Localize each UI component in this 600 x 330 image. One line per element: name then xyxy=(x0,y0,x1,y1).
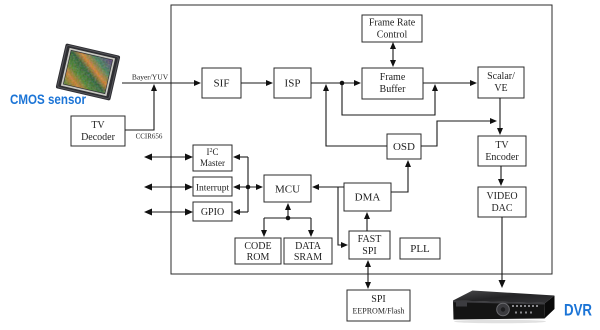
arrowhead down into DVR xyxy=(499,280,506,288)
svg-text:Encoder: Encoder xyxy=(485,152,519,163)
svg-text:TV: TV xyxy=(91,120,105,131)
svg-text:CMOS sensor: CMOS sensor xyxy=(10,91,86,107)
svg-text:Master: Master xyxy=(200,158,225,168)
wire Interrupt external xyxy=(148,186,189,188)
svg-text:CODE: CODE xyxy=(244,241,271,252)
wire frame-buffer bypass xyxy=(342,83,435,115)
arrowhead OSD branch up xyxy=(323,84,329,91)
svg-text:SPI: SPI xyxy=(362,246,376,257)
arrowhead bypass up xyxy=(432,84,438,91)
svg-text:OSD: OSD xyxy=(393,141,415,153)
svg-text:DMA: DMA xyxy=(355,192,381,204)
wire Scalar/VE to TV Encoder xyxy=(499,98,501,131)
svg-text:SPI: SPI xyxy=(371,294,385,305)
junction dot ISP bus xyxy=(340,81,345,86)
wire FAST SPI to SPI EEPROM xyxy=(367,263,369,286)
arrowhead into SIF xyxy=(194,80,201,86)
block I2C Master xyxy=(193,145,232,171)
arrowhead up into Frame Rate Control xyxy=(390,42,396,49)
block GPIO xyxy=(193,202,232,221)
svg-text:VE: VE xyxy=(494,83,507,94)
block SIF xyxy=(202,68,241,98)
block TV Decoder xyxy=(71,116,125,146)
arrowhead DMA line up into OSD xyxy=(405,160,411,167)
svg-text:DAC: DAC xyxy=(491,203,512,214)
arrowhead up into FAST SPI bottom xyxy=(365,260,371,267)
wire VIDEO DAC to DVR xyxy=(501,217,503,283)
wire FAST SPI to DMA xyxy=(366,216,368,231)
block SPI EEPROM/Flash xyxy=(347,290,410,321)
svg-text:Control: Control xyxy=(377,30,408,41)
svg-text:Bayer/YUV: Bayer/YUV xyxy=(132,73,169,82)
arrowhead connector into I2C Master right xyxy=(233,154,240,160)
block MCU xyxy=(264,175,311,202)
chip boundary frame xyxy=(171,5,552,274)
arrowhead into MCU left xyxy=(256,184,263,190)
wire TV Encoder to VIDEO DAC xyxy=(500,166,502,182)
svg-text:SIF: SIF xyxy=(214,78,230,90)
junction dot interrupt line xyxy=(246,185,251,190)
block Interrupt xyxy=(193,177,232,196)
wire Frame Rate Control to Frame Buffer xyxy=(392,46,394,63)
arrowhead down into VIDEO DAC xyxy=(498,179,504,186)
svg-text:VIDEO: VIDEO xyxy=(486,191,517,202)
wire sensor to SIF xyxy=(122,82,197,84)
wire DMA branch to FAST SPI xyxy=(338,187,344,245)
arrowhead down into TV Encoder xyxy=(497,128,503,135)
wire GPIO external xyxy=(148,211,189,213)
block VIDEO DAC xyxy=(478,187,526,217)
wire DMA to OSD xyxy=(391,164,408,192)
svg-text:ISP: ISP xyxy=(285,78,301,90)
wire MCU to memory junction xyxy=(287,207,289,218)
svg-text:Scalar/: Scalar/ xyxy=(487,71,515,82)
arrowhead connector into GPIO right xyxy=(233,209,240,215)
svg-text:Interrupt: Interrupt xyxy=(196,184,230,194)
svg-text:Buffer: Buffer xyxy=(380,84,407,95)
junction dot MCU memory xyxy=(286,216,291,221)
wire junction to CODE ROM xyxy=(263,218,265,233)
block TV Encoder xyxy=(478,136,526,166)
arrowhead down into Frame Buffer xyxy=(390,60,396,67)
svg-text:GPIO: GPIO xyxy=(201,207,224,218)
block PLL xyxy=(400,238,440,259)
svg-text:FAST: FAST xyxy=(358,234,382,245)
block ISP xyxy=(274,68,311,98)
arrowhead down into SPI EEPROM xyxy=(365,282,371,289)
arrowhead FAST SPI up into DMA xyxy=(364,212,370,219)
arrowhead into Frame Buffer xyxy=(354,80,361,86)
svg-text:ROM: ROM xyxy=(247,252,270,263)
wire SIF to ISP xyxy=(241,82,269,84)
svg-text:Decoder: Decoder xyxy=(81,132,116,143)
wire memory junction horizontal xyxy=(264,217,311,219)
svg-text:EEPROM/Flash: EEPROM/Flash xyxy=(352,307,404,316)
block FAST SPI xyxy=(349,231,390,259)
wire OSD right to TV Encoder line xyxy=(421,121,492,146)
wire Interrupt to MCU xyxy=(237,186,259,188)
wire ISP to Frame Buffer xyxy=(311,82,357,84)
wire OSD left branch up to ISP bus xyxy=(326,89,387,146)
arrowhead into Interrupt right xyxy=(233,184,240,190)
block Scalar/VE xyxy=(478,67,524,98)
arrowhead GPIO external left xyxy=(144,209,152,216)
wire Frame Buffer to Scalar/VE xyxy=(423,82,473,84)
block CODE ROM xyxy=(235,238,281,264)
svg-text:DVR: DVR xyxy=(564,302,592,320)
svg-text:CCIR656: CCIR656 xyxy=(136,133,163,141)
svg-text:Frame: Frame xyxy=(380,72,406,83)
wire peripheral connector vertical xyxy=(247,157,249,212)
arrowhead into Scalar/VE xyxy=(470,80,477,86)
wire DMA to MCU xyxy=(316,186,344,188)
block DATA SRAM xyxy=(284,238,332,264)
svg-text:Frame Rate: Frame Rate xyxy=(369,18,416,29)
block Frame Rate Control xyxy=(362,15,422,42)
svg-text:I2C: I2C xyxy=(206,147,218,157)
arrowhead DMA into MCU xyxy=(312,184,319,190)
arrowhead Interrupt external left xyxy=(144,184,152,191)
arrowhead GPIO into box xyxy=(185,209,193,216)
arrowhead TV Decoder bus up xyxy=(151,84,157,91)
svg-text:MCU: MCU xyxy=(275,184,300,196)
svg-text:TV: TV xyxy=(495,140,509,151)
block Frame Buffer xyxy=(362,68,423,99)
CMOS sensor photo xyxy=(56,43,121,100)
wire TV Decoder to sensor bus xyxy=(125,88,154,130)
arrowhead I2C into box xyxy=(185,154,193,161)
svg-text:PLL: PLL xyxy=(410,243,430,255)
wire connector to GPIO xyxy=(237,211,248,213)
wire junction to DATA SRAM xyxy=(310,218,312,233)
arrowhead OSD line right xyxy=(490,118,497,124)
svg-text:SRAM: SRAM xyxy=(294,252,322,263)
wire connector to I2C Master xyxy=(237,156,248,158)
block DMA xyxy=(344,183,391,211)
arrowhead up into MCU bottom xyxy=(285,203,291,210)
arrowhead branch into FAST SPI xyxy=(341,242,348,248)
arrowhead down into CODE ROM xyxy=(261,230,267,237)
block OSD xyxy=(387,134,421,159)
arrowhead into ISP xyxy=(266,80,273,86)
arrowhead Interrupt into box xyxy=(185,184,193,191)
svg-text:DATA: DATA xyxy=(295,241,322,252)
arrowhead I2C external left xyxy=(144,154,152,161)
arrowhead down into DATA SRAM xyxy=(308,230,314,237)
wire I2C Master external xyxy=(148,156,189,158)
DVR photo xyxy=(453,291,555,324)
